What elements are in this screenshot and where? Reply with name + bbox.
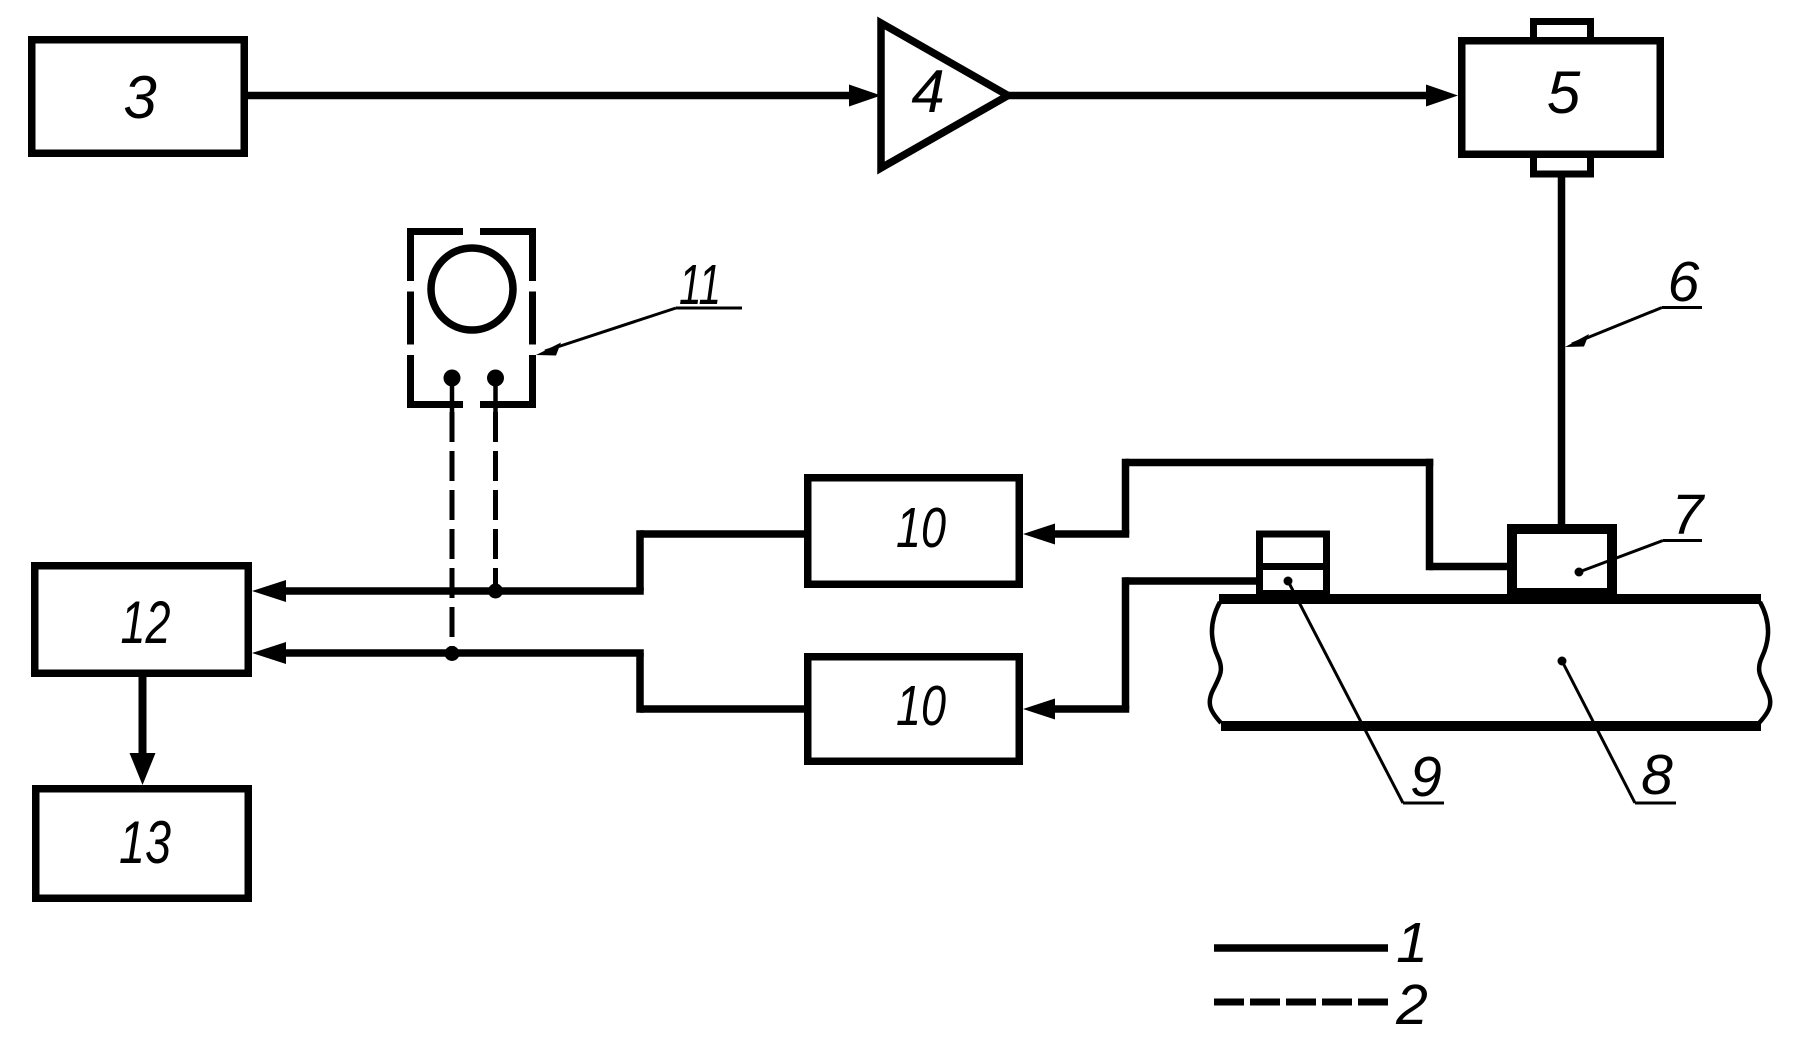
legend solid line (1) [1214,911,1428,975]
svg-text:1: 1 [1396,911,1428,975]
svg-text:7: 7 [1672,483,1706,547]
plate 8 top edge [1219,594,1761,604]
bottom tab of block 5 [1534,156,1591,174]
amplifier 4 (triangle) [881,23,1008,168]
svg-text:8: 8 [1641,743,1673,807]
svg-text:6: 6 [1668,250,1700,314]
bottom box 10 (amplifier) [808,657,1020,762]
block 13 (indicator) [36,789,249,899]
oscilloscope terminal dots [444,370,461,387]
block 5 (transducer) [1462,41,1661,155]
svg-text:9: 9 [1410,745,1442,809]
arrowhead into amplifier 4 [849,85,881,107]
label 9 with leader dot [1284,577,1445,810]
junction dot on upper wire [488,584,503,599]
arrowhead into block 5 [1426,85,1458,107]
wire from block 3 to amplifier 4 [248,92,853,100]
dashed probe lead right (to upper wire) [493,412,498,586]
probe stems inside oscilloscope [450,378,455,412]
plate 8 bottom edge [1221,721,1761,731]
legend dashed line (2) [1214,973,1428,1037]
label 11 with leader arrow [536,253,742,356]
wire from amplifier 4 to block 5 [1005,92,1430,100]
arrowhead into block 12 (upper) [252,580,286,602]
svg-text:2: 2 [1395,973,1428,1037]
top tab of block 5 [1534,22,1591,39]
wire 6 (vertical waveguide from block 5 down to box 7) [1558,177,1566,529]
plate 8 left break (squiggle) [1210,602,1221,723]
svg-text:4: 4 [911,58,944,125]
oscilloscope screen (circle) [431,248,513,330]
wire from box 7 left side, stepping up-left [1050,459,1508,571]
plate 8 right break (squiggle) [1759,602,1770,723]
arrowhead into bottom box 10 [1023,699,1055,720]
dashed probe lead left (to lower wire) [450,412,455,648]
label 7 with leader dot [1575,483,1706,577]
arrow from block 12 down to block 13 [130,677,156,785]
oscilloscope 11 (dashed box) [407,228,536,408]
junction dot on lower wire [445,646,460,661]
svg-text:10: 10 [896,674,946,738]
block 12 (processing unit) [35,566,249,674]
label 8 with leader dot [1558,657,1677,808]
label 6 with leader arrow [1565,250,1702,347]
box 7 (emitter on plate) [1512,529,1612,593]
svg-text:3: 3 [123,64,156,131]
box 9 (receiver on plate) [1256,534,1330,594]
arrowhead into top box 10 [1023,524,1055,545]
svg-text:10: 10 [896,496,946,560]
wire from top box 10 to block 12 (upper) [286,530,804,591]
svg-text:12: 12 [121,589,171,656]
svg-text:13: 13 [119,809,171,876]
top box 10 (amplifier) [808,478,1020,585]
svg-text:5: 5 [1547,59,1581,126]
wire from box 9 to bottom box 10 [1050,577,1256,709]
arrowhead into block 12 (lower) [252,642,286,664]
wire from bottom box 10 to block 12 (lower) [286,653,804,713]
block 3 (generator) [32,40,245,154]
